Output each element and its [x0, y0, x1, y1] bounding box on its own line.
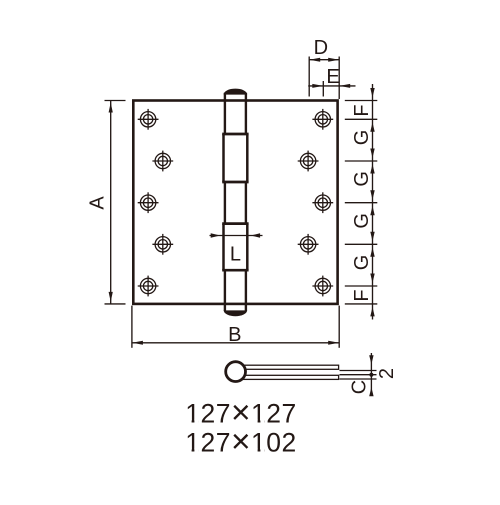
svg-text:127×102: 127×102 — [185, 423, 297, 460]
barrel pin top dome cap — [224, 89, 247, 95]
side view bottom leaf — [242, 375, 339, 379]
svg-text:E: E — [326, 66, 339, 88]
svg-text:A: A — [87, 196, 109, 210]
screw hole H6 crosshair — [312, 192, 333, 213]
hinge barrel knuckle 2 (wide) walls — [224, 134, 248, 182]
svg-text:F: F — [351, 104, 373, 116]
side view top leaf — [242, 365, 339, 369]
hinge barrel knuckle 5 (narrow, bottom) walls — [225, 270, 246, 311]
dimension A extension tick top — [105, 100, 126, 102]
dimension B line with arrows — [132, 341, 339, 345]
dimension B extension line left — [131, 306, 133, 348]
screw hole H3 crosshair — [152, 151, 173, 172]
dimension E line with outside arrows — [308, 84, 355, 88]
svg-text:C: C — [348, 380, 370, 394]
svg-text:F: F — [351, 289, 373, 301]
dimension A extension tick bottom — [105, 303, 126, 305]
side view dimension ticks — [340, 371, 377, 380]
side view knuckle circle — [226, 362, 246, 382]
screw hole H10 crosshair — [312, 276, 333, 297]
screw hole H8 crosshair — [298, 234, 319, 255]
right chain arrows — [370, 88, 374, 316]
svg-text:B: B — [228, 324, 241, 346]
dimension B extension line right — [338, 306, 340, 348]
right dimension chain ticks — [345, 101, 378, 304]
svg-text:G: G — [351, 130, 373, 146]
knuckle divider 4 — [222, 269, 248, 272]
knuckle divider 1 — [222, 133, 248, 136]
screw hole H2 crosshair — [312, 109, 333, 130]
knuckle divider 3 — [222, 222, 248, 225]
svg-text:G: G — [351, 213, 373, 229]
screw hole H7 crosshair — [152, 234, 173, 255]
svg-text:L: L — [230, 243, 241, 265]
dimension D line with arrows — [309, 58, 339, 62]
dimension E extension line (outer hole column) — [322, 81, 324, 97]
dimension D extension line left (inner hole column) — [308, 57, 310, 97]
screw hole H4 crosshair — [298, 151, 319, 172]
dimension A line with arrows — [109, 101, 113, 304]
hinge barrel knuckle 4 (wide) walls — [224, 224, 248, 271]
hinge plate (front view) — [133, 101, 337, 304]
right dimension chain line — [372, 84, 374, 320]
side view dimension line, arrows and dot — [369, 353, 373, 396]
screw hole H9 crosshair — [138, 276, 159, 297]
svg-text:G: G — [351, 171, 373, 187]
hinge barrel knuckle 1 (narrow, top) walls — [225, 93, 246, 134]
hinge barrel knuckle 3 (narrow, middle) walls — [225, 182, 246, 224]
knuckle divider 2 — [222, 181, 248, 184]
svg-text:2: 2 — [376, 368, 398, 379]
dimension L line with outside arrows — [210, 233, 263, 237]
screw hole H5 crosshair — [138, 192, 159, 213]
screw hole H1 crosshair — [138, 109, 159, 130]
svg-text:G: G — [351, 255, 373, 271]
dimension D/E extension line right (plate edge) — [338, 57, 340, 100]
svg-text:D: D — [314, 37, 328, 59]
barrel pin bottom dome cap — [224, 310, 247, 316]
